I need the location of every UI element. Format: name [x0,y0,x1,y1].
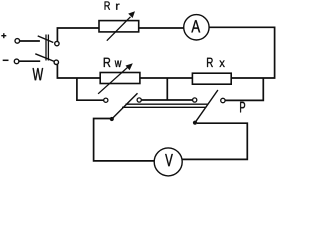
label P (changeover switch P) [240,102,245,113]
voltmeter V circle [154,148,182,176]
wire (Rr to ammeter) [139,27,184,29]
switch P left blade [112,93,138,119]
switch W top contact [55,41,59,45]
wire (ammeter to right corner, down right side) [209,27,275,78]
wire (branch from middle rail left, down to contact A1) [77,78,104,100]
ammeter A circle [184,15,209,40]
terminal circle + [15,39,20,44]
switch W top blade [38,36,54,43]
wire (W top contact up to top rail) [57,28,99,41]
label W (switch W) [33,68,44,80]
node + (positive terminal label) [1,33,6,38]
switch P coupling bar [122,104,208,107]
switch W bottom contact [54,60,58,64]
wire (right pivot to voltmeter, right loop) [182,123,247,159]
wire (tap from Rw-Rx junction down to B wire) [166,78,168,100]
resistor Rr arrow (rheostat) [107,17,131,41]
switch P left pivot [110,117,114,121]
switch P right blade [195,90,218,123]
switch P right pivot [193,121,197,125]
resistor Rr box [99,21,139,32]
wire (W bottom contact down to middle rail) [57,64,100,78]
switch W coupling bar [46,35,48,61]
label R w (rheostat Rw value label) [104,58,122,67]
wire (contact C right, up to Rx right wire) [225,78,263,100]
wire (left pivot to voltmeter, left loop) [94,119,155,161]
switch P contact B1 [137,98,141,102]
switch P right fixed contact C [221,98,225,102]
wire (Rw to Rx) [140,77,193,79]
label R r (rheostat Rr value label) [105,2,120,10]
label V (voltmeter) [165,154,173,166]
resistor Rw box [100,73,140,84]
resistor Rx box [192,73,231,84]
switch P left fixed contact A1 [104,98,108,102]
resistor Rw arrow (rheostat) [98,67,128,94]
node - (negative terminal label) [3,59,9,61]
switch P contact B2 [193,98,197,102]
wire [20,40,40,42]
wire (B1 to B2) [141,99,192,101]
switch W bottom blade [35,54,54,62]
label A (ammeter) [191,20,200,32]
label R x (resistor Rx value label) [207,58,225,67]
wire [19,60,40,62]
terminal circle - [14,59,19,64]
